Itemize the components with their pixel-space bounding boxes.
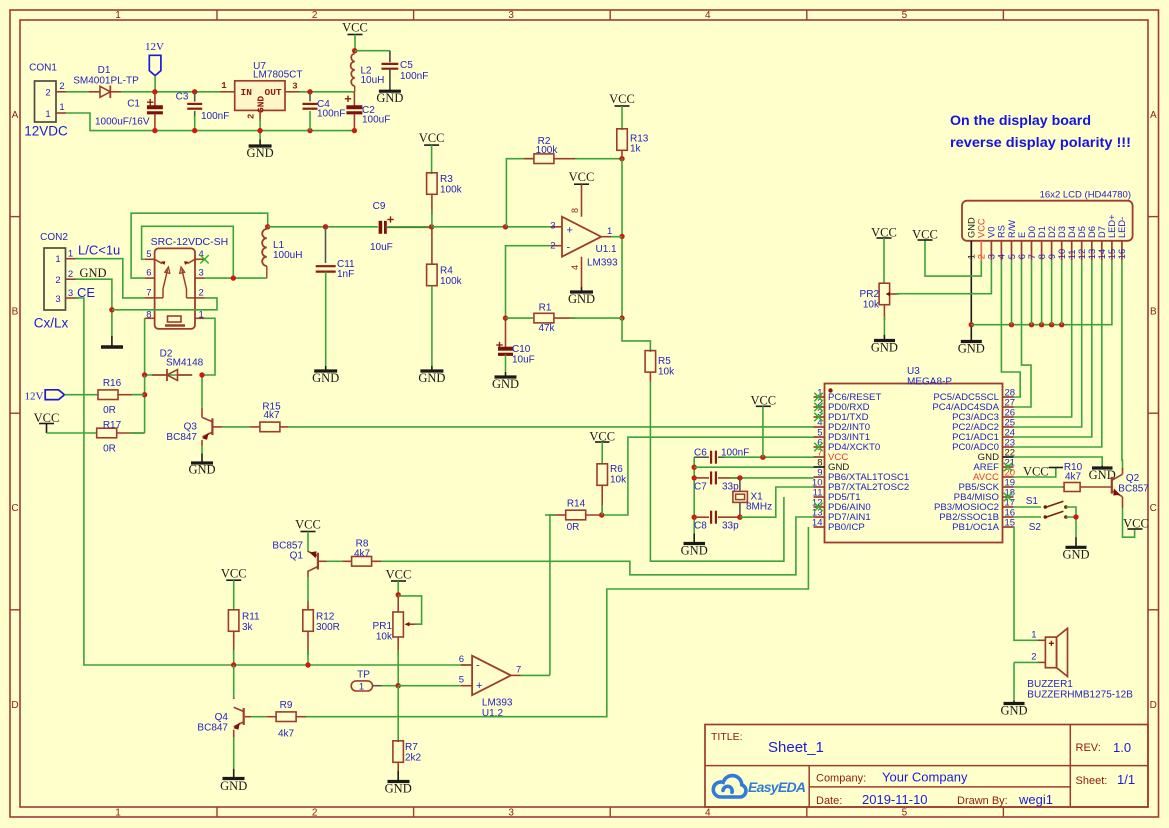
svg-text:100uH: 100uH bbox=[273, 250, 302, 261]
svg-text:15: 15 bbox=[1107, 249, 1117, 259]
svg-text:2: 2 bbox=[247, 114, 257, 119]
svg-text:12: 12 bbox=[1077, 249, 1087, 259]
svg-text:GND: GND bbox=[967, 217, 977, 238]
svg-text:LM393: LM393 bbox=[482, 698, 513, 709]
svg-text:R9: R9 bbox=[280, 700, 293, 711]
svg-text:4k7: 4k7 bbox=[1065, 472, 1082, 483]
svg-text:5: 5 bbox=[459, 675, 464, 686]
svg-text:GND: GND bbox=[568, 292, 595, 306]
svg-text:300R: 300R bbox=[316, 622, 340, 633]
svg-text:6: 6 bbox=[1017, 254, 1027, 259]
svg-text:PB0/ICP: PB0/ICP bbox=[828, 522, 865, 533]
svg-text:9: 9 bbox=[1047, 254, 1057, 259]
svg-text:R1: R1 bbox=[539, 303, 552, 314]
svg-text:100nF: 100nF bbox=[721, 448, 749, 459]
svg-text:S1: S1 bbox=[1026, 496, 1039, 507]
svg-text:1000uF/16V: 1000uF/16V bbox=[95, 117, 150, 128]
svg-text:7: 7 bbox=[1027, 254, 1037, 259]
svg-text:C: C bbox=[11, 503, 18, 514]
svg-text:C8: C8 bbox=[694, 521, 707, 532]
svg-text:Q3: Q3 bbox=[184, 422, 198, 433]
svg-text:13: 13 bbox=[1087, 249, 1097, 259]
svg-text:Q2: Q2 bbox=[1126, 473, 1140, 484]
svg-text:Q1: Q1 bbox=[290, 551, 304, 562]
svg-text:VCC: VCC bbox=[342, 21, 368, 35]
svg-text:VCC: VCC bbox=[419, 131, 445, 145]
svg-text:4: 4 bbox=[570, 265, 580, 270]
svg-text:PR2: PR2 bbox=[860, 289, 880, 300]
svg-text:1/1: 1/1 bbox=[1117, 772, 1135, 787]
svg-text:GND: GND bbox=[247, 146, 274, 160]
svg-text:VCC: VCC bbox=[295, 518, 321, 532]
svg-text:VCC: VCC bbox=[977, 218, 987, 238]
svg-text:LED+: LED+ bbox=[1107, 214, 1117, 238]
svg-text:GND: GND bbox=[256, 96, 267, 113]
svg-text:D7: D7 bbox=[1097, 226, 1107, 238]
svg-text:1: 1 bbox=[199, 310, 204, 321]
svg-text:Sheet_1: Sheet_1 bbox=[768, 739, 824, 756]
svg-text:C5: C5 bbox=[400, 60, 413, 71]
svg-text:R7: R7 bbox=[405, 742, 418, 753]
svg-text:7: 7 bbox=[516, 664, 521, 675]
svg-text:3: 3 bbox=[550, 220, 555, 231]
svg-text:R3: R3 bbox=[440, 174, 453, 185]
svg-text:D3: D3 bbox=[1057, 226, 1067, 238]
svg-text:1: 1 bbox=[967, 254, 977, 259]
svg-text:GND: GND bbox=[1000, 704, 1027, 718]
svg-text:D: D bbox=[11, 700, 18, 711]
svg-text:Company:: Company: bbox=[816, 773, 866, 785]
svg-text:10k: 10k bbox=[658, 367, 675, 378]
svg-text:1: 1 bbox=[55, 254, 60, 265]
svg-text:0R: 0R bbox=[103, 444, 116, 455]
svg-text:1: 1 bbox=[221, 81, 227, 91]
svg-text:10uH: 10uH bbox=[361, 75, 385, 86]
svg-text:TP: TP bbox=[357, 670, 370, 681]
svg-text:1: 1 bbox=[59, 102, 64, 113]
svg-text:VCC: VCC bbox=[386, 568, 412, 582]
svg-text:14: 14 bbox=[1097, 249, 1107, 259]
svg-text:GND: GND bbox=[871, 341, 898, 355]
svg-text:C: C bbox=[1150, 503, 1157, 514]
svg-text:C3: C3 bbox=[176, 91, 189, 102]
svg-text:U1.1: U1.1 bbox=[596, 244, 618, 255]
svg-text:GND: GND bbox=[220, 779, 247, 793]
svg-text:Your Company: Your Company bbox=[882, 770, 968, 785]
svg-text:5: 5 bbox=[1007, 254, 1017, 259]
svg-text:12V: 12V bbox=[145, 41, 164, 53]
svg-text:S2: S2 bbox=[1029, 522, 1042, 533]
svg-text:3: 3 bbox=[55, 294, 60, 305]
svg-text:SRC-12VDC-SH: SRC-12VDC-SH bbox=[151, 236, 229, 248]
svg-text:E: E bbox=[1017, 232, 1027, 238]
svg-text:R/W: R/W bbox=[1007, 220, 1017, 238]
svg-text:100nF: 100nF bbox=[400, 71, 428, 82]
svg-text:1: 1 bbox=[115, 808, 121, 819]
svg-text:+: + bbox=[567, 224, 573, 236]
svg-text:D1: D1 bbox=[98, 65, 111, 76]
svg-text:47k: 47k bbox=[538, 323, 555, 334]
svg-text:16: 16 bbox=[1117, 249, 1127, 259]
svg-text:100nF: 100nF bbox=[317, 109, 345, 120]
svg-text:GND: GND bbox=[376, 91, 403, 105]
svg-text:100k: 100k bbox=[440, 276, 463, 287]
svg-text:B: B bbox=[1150, 307, 1157, 318]
svg-text:R11: R11 bbox=[242, 612, 260, 623]
svg-text:C9: C9 bbox=[373, 201, 386, 212]
svg-text:100nF: 100nF bbox=[201, 111, 229, 122]
svg-text:D4: D4 bbox=[1067, 226, 1077, 238]
svg-text:4k7: 4k7 bbox=[278, 729, 295, 740]
svg-text:8: 8 bbox=[146, 310, 151, 321]
svg-text:4: 4 bbox=[705, 808, 711, 819]
svg-text:5: 5 bbox=[902, 10, 908, 21]
svg-text:U3: U3 bbox=[907, 366, 920, 377]
svg-text:10k: 10k bbox=[863, 300, 880, 311]
svg-text:GND: GND bbox=[681, 544, 708, 558]
svg-text:3: 3 bbox=[987, 254, 997, 259]
svg-text:On the display board: On the display board bbox=[950, 113, 1091, 128]
svg-text:1: 1 bbox=[68, 249, 73, 260]
svg-text:10uF: 10uF bbox=[370, 242, 393, 253]
svg-text:D5: D5 bbox=[1077, 226, 1087, 238]
svg-text:100k: 100k bbox=[440, 185, 463, 196]
svg-text:LM7805CT: LM7805CT bbox=[253, 70, 302, 81]
svg-text:VCC: VCC bbox=[750, 394, 776, 408]
svg-text:D0: D0 bbox=[1027, 226, 1037, 238]
svg-text:PB1/OC1A: PB1/OC1A bbox=[952, 522, 1000, 533]
svg-text:4: 4 bbox=[705, 10, 711, 21]
svg-text:16x2 LCD (HD44780): 16x2 LCD (HD44780) bbox=[1040, 190, 1131, 201]
svg-text:4: 4 bbox=[997, 254, 1007, 259]
svg-text:A: A bbox=[1150, 110, 1157, 121]
svg-text:SM4001PL-TP: SM4001PL-TP bbox=[73, 76, 139, 87]
svg-text:R14: R14 bbox=[567, 499, 586, 510]
svg-text:CON2: CON2 bbox=[40, 232, 68, 243]
svg-text:R16: R16 bbox=[103, 378, 122, 389]
svg-text:C10: C10 bbox=[512, 344, 531, 355]
svg-text:33p: 33p bbox=[722, 521, 739, 532]
svg-text:VCC: VCC bbox=[221, 567, 247, 581]
svg-text:1: 1 bbox=[1031, 630, 1036, 641]
svg-text:D: D bbox=[1150, 700, 1157, 711]
svg-text:1nF: 1nF bbox=[337, 269, 354, 280]
svg-text:BUZZERHMB1275-12B: BUZZERHMB1275-12B bbox=[1027, 690, 1133, 701]
svg-text:3: 3 bbox=[508, 808, 514, 819]
svg-text:3k: 3k bbox=[242, 622, 254, 633]
svg-text:IN: IN bbox=[241, 87, 253, 98]
svg-text:2: 2 bbox=[312, 10, 318, 21]
svg-text:wegi1: wegi1 bbox=[1018, 792, 1053, 807]
svg-text:BC847: BC847 bbox=[197, 723, 228, 734]
svg-text:2: 2 bbox=[312, 808, 318, 819]
svg-text:GND: GND bbox=[418, 371, 445, 385]
svg-text:EasyEDA: EasyEDA bbox=[748, 779, 806, 795]
svg-text:BUZZER1: BUZZER1 bbox=[1027, 679, 1073, 690]
svg-text:2: 2 bbox=[199, 287, 204, 298]
svg-text:10k: 10k bbox=[610, 475, 627, 486]
svg-text:1k: 1k bbox=[630, 144, 642, 155]
svg-text:C6: C6 bbox=[694, 448, 707, 459]
svg-text:GND: GND bbox=[79, 266, 106, 280]
svg-text:2: 2 bbox=[45, 88, 50, 99]
svg-text:C1: C1 bbox=[127, 99, 140, 110]
svg-text:LED-: LED- bbox=[1117, 217, 1127, 238]
svg-text:TITLE:: TITLE: bbox=[711, 731, 743, 743]
svg-text:D2: D2 bbox=[1047, 226, 1057, 238]
svg-text:1.0: 1.0 bbox=[1113, 740, 1131, 755]
svg-text:C7: C7 bbox=[694, 482, 707, 493]
svg-text:10uF: 10uF bbox=[512, 355, 535, 366]
svg-text:3: 3 bbox=[199, 268, 204, 279]
svg-text:Q4: Q4 bbox=[215, 712, 229, 723]
svg-text:-: - bbox=[476, 660, 480, 672]
svg-text:Date:: Date: bbox=[816, 795, 842, 807]
svg-text:10k: 10k bbox=[376, 632, 393, 643]
svg-text:R17: R17 bbox=[103, 420, 122, 431]
svg-text:12VDC: 12VDC bbox=[24, 124, 68, 139]
svg-text:A: A bbox=[12, 110, 19, 121]
svg-text:OUT: OUT bbox=[265, 87, 282, 98]
svg-text:0R: 0R bbox=[103, 405, 116, 416]
svg-text:Drawn By:: Drawn By: bbox=[957, 795, 1008, 807]
svg-text:VCC: VCC bbox=[569, 170, 595, 184]
svg-text:5: 5 bbox=[902, 808, 908, 819]
svg-text:B: B bbox=[12, 307, 19, 318]
svg-text:5: 5 bbox=[146, 249, 151, 260]
svg-text:1: 1 bbox=[45, 109, 50, 120]
svg-text:BC857: BC857 bbox=[1118, 484, 1149, 495]
svg-text:Cx/Lx: Cx/Lx bbox=[34, 316, 69, 331]
svg-text:GND: GND bbox=[188, 463, 215, 477]
svg-text:GND: GND bbox=[312, 371, 339, 385]
svg-text:14: 14 bbox=[812, 518, 823, 529]
svg-text:R12: R12 bbox=[316, 612, 335, 623]
svg-text:SM4148: SM4148 bbox=[166, 358, 204, 369]
svg-text:3: 3 bbox=[508, 10, 514, 21]
svg-text:GND: GND bbox=[385, 782, 412, 796]
svg-text:GND: GND bbox=[1062, 548, 1089, 562]
svg-text:2: 2 bbox=[977, 254, 987, 259]
svg-text:1: 1 bbox=[115, 10, 121, 21]
svg-text:LM393: LM393 bbox=[587, 258, 618, 269]
svg-text:CON1: CON1 bbox=[29, 63, 57, 74]
svg-text:4k7: 4k7 bbox=[354, 549, 371, 560]
svg-text:2: 2 bbox=[1031, 652, 1036, 663]
svg-text:11: 11 bbox=[1067, 250, 1077, 260]
svg-text:10: 10 bbox=[1057, 249, 1067, 259]
svg-text:V0: V0 bbox=[987, 227, 997, 238]
svg-text:15: 15 bbox=[1005, 518, 1016, 529]
svg-text:3: 3 bbox=[292, 82, 297, 92]
svg-text:2: 2 bbox=[59, 81, 64, 92]
svg-text:2: 2 bbox=[55, 275, 60, 286]
svg-text:8: 8 bbox=[1037, 254, 1047, 259]
svg-text:8MHz: 8MHz bbox=[746, 502, 772, 513]
svg-text:REV:: REV: bbox=[1076, 742, 1101, 754]
svg-text:R6: R6 bbox=[610, 464, 623, 475]
svg-text:2: 2 bbox=[68, 269, 73, 280]
svg-text:Sheet:: Sheet: bbox=[1076, 775, 1108, 787]
svg-text:6: 6 bbox=[146, 268, 151, 279]
svg-text:R4: R4 bbox=[440, 266, 453, 277]
svg-text:1: 1 bbox=[607, 226, 612, 237]
svg-text:-: - bbox=[567, 241, 571, 253]
svg-text:1: 1 bbox=[359, 681, 364, 692]
svg-text:12V: 12V bbox=[25, 391, 44, 403]
svg-text:MEGA8-P: MEGA8-P bbox=[907, 377, 952, 388]
svg-text:100uF: 100uF bbox=[362, 115, 390, 126]
svg-text:R5: R5 bbox=[658, 356, 671, 367]
svg-text:VCC: VCC bbox=[1023, 465, 1049, 479]
svg-text:PR1: PR1 bbox=[373, 621, 393, 632]
svg-text:GND: GND bbox=[958, 342, 985, 356]
svg-text:4k7: 4k7 bbox=[263, 410, 280, 421]
svg-text:2k2: 2k2 bbox=[405, 753, 422, 764]
svg-text:D1: D1 bbox=[1037, 226, 1047, 238]
svg-text:6: 6 bbox=[459, 654, 464, 665]
svg-text:L/C<1u: L/C<1u bbox=[78, 243, 120, 258]
svg-text:reverse display polarity !!!: reverse display polarity !!! bbox=[950, 135, 1131, 150]
svg-text:2019-11-10: 2019-11-10 bbox=[862, 792, 928, 807]
svg-text:8: 8 bbox=[570, 208, 580, 213]
svg-text:BC847: BC847 bbox=[166, 432, 197, 443]
svg-text:RS: RS bbox=[997, 225, 1007, 238]
svg-text:VCC: VCC bbox=[609, 92, 635, 106]
svg-text:+: + bbox=[476, 680, 482, 692]
svg-text:7: 7 bbox=[146, 287, 151, 298]
svg-text:GND: GND bbox=[492, 377, 519, 391]
svg-text:D6: D6 bbox=[1087, 226, 1097, 238]
svg-text:0R: 0R bbox=[567, 522, 580, 533]
svg-text:100k: 100k bbox=[536, 145, 559, 156]
